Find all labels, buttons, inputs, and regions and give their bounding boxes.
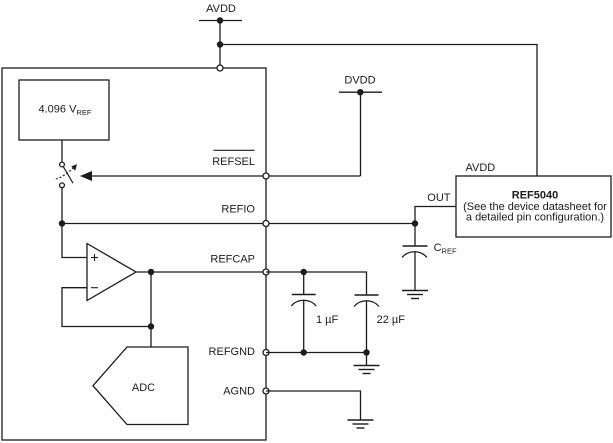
pin REFGND <box>209 346 269 358</box>
pin REFSEL <box>212 150 269 179</box>
svg-text:a detailed pin configuration.): a detailed pin configuration.) <box>466 211 604 223</box>
pin REFIO <box>221 204 269 227</box>
wire REFGND net <box>266 352 367 354</box>
switch S1 <box>56 162 77 188</box>
op-amp U1 buffer <box>87 244 136 301</box>
ground AGND <box>348 420 374 428</box>
power terminal DVDD <box>339 74 382 95</box>
svg-text:AVDD: AVDD <box>466 162 496 174</box>
junction CREF node <box>412 220 418 226</box>
pin REFCAP <box>210 254 269 276</box>
junction C2 bottom <box>363 349 369 355</box>
svg-text:CREF: CREF <box>434 242 457 255</box>
junction C1 top <box>301 269 307 275</box>
ground CREF <box>402 291 428 299</box>
ADC block <box>93 347 188 425</box>
svg-text:OUT: OUT <box>427 192 451 204</box>
ground REFGND <box>354 353 380 374</box>
svg-text:AVDD: AVDD <box>206 3 236 15</box>
device outline ADC device <box>2 68 266 440</box>
wire output to ADC <box>150 272 152 347</box>
svg-text:22 µF: 22 µF <box>377 314 406 326</box>
svg-text:1 µF: 1 µF <box>316 314 339 326</box>
svg-text:4.096 VREF: 4.096 VREF <box>39 104 92 117</box>
wire AVDD vertical <box>219 21 221 69</box>
power terminal AVDD <box>199 3 242 24</box>
pin AVDD (top edge) <box>217 65 223 71</box>
junction REFIO node <box>59 220 65 226</box>
wire AVDD to REF5040 <box>220 45 537 177</box>
wire OUT to REFIO <box>415 207 456 224</box>
wire DVDD vertical <box>360 92 362 176</box>
junction feedback node <box>148 323 154 329</box>
junction buffer output <box>148 269 154 275</box>
wire feedback <box>62 288 151 327</box>
wire AGND net <box>266 391 361 420</box>
svg-text:REF5040: REF5040 <box>512 190 558 202</box>
svg-text:REFSEL: REFSEL <box>212 156 255 168</box>
REF5040 box <box>456 176 611 237</box>
wire buffer output REFCAP <box>136 271 266 273</box>
arrowhead REFSEL into switch <box>80 171 92 181</box>
pin AGND <box>223 386 269 398</box>
junction C1 bottom <box>301 349 307 355</box>
wire REFSEL net <box>91 175 361 177</box>
svg-text:DVDD: DVDD <box>344 74 375 86</box>
wire REFIO net <box>62 223 415 225</box>
wire VREF to switch <box>61 140 63 162</box>
svg-text:ADC: ADC <box>132 382 155 394</box>
capacitor C1 1uF <box>291 272 338 353</box>
voltage reference 4.096 VREF <box>19 80 109 140</box>
junction AVDD node <box>217 41 223 47</box>
capacitor CREF <box>402 224 457 291</box>
svg-text:REFCAP: REFCAP <box>210 254 255 266</box>
svg-text:REFGND: REFGND <box>209 346 256 358</box>
svg-text:AGND: AGND <box>223 386 255 398</box>
wire switch to buffer + input <box>62 188 87 258</box>
svg-text:REFIO: REFIO <box>221 204 255 216</box>
wire REFCAP net <box>266 272 367 295</box>
capacitor C2 22uF <box>354 295 405 353</box>
